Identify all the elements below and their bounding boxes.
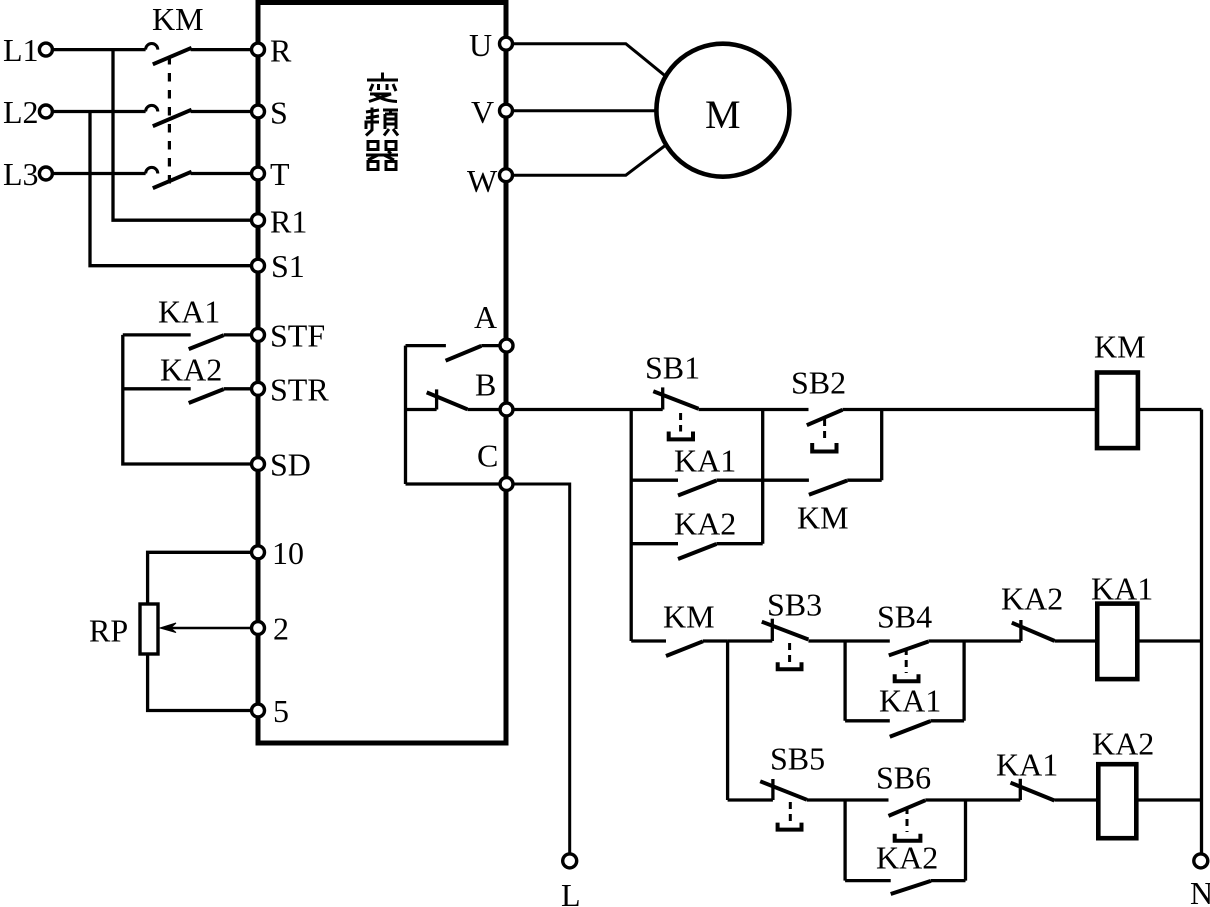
relay contact KA2 (row 3)	[631, 506, 763, 560]
svg-text:U: U	[469, 27, 492, 63]
pushbutton SB5 (NC)	[760, 741, 825, 830]
motor M	[656, 44, 789, 177]
relay contact KA2 (parallel with SB6)	[845, 840, 965, 895]
terminal L3	[39, 167, 52, 180]
terminal V	[500, 104, 513, 117]
svg-text:KM: KM	[797, 500, 849, 536]
svg-text:R1: R1	[270, 204, 307, 240]
wire KM contact to S	[191, 110, 250, 113]
svg-text:SB5: SB5	[770, 741, 825, 777]
svg-text:N: N	[1190, 875, 1210, 907]
svg-text:L: L	[561, 877, 581, 907]
right rail down to N	[1200, 410, 1203, 855]
wire W to motor	[513, 146, 665, 175]
svg-text:SB4: SB4	[877, 599, 932, 635]
svg-text:KA1: KA1	[674, 443, 736, 479]
wire KM contact to T	[191, 172, 250, 175]
wire V to motor	[513, 109, 658, 112]
svg-text:B: B	[475, 367, 496, 403]
branch verticals around KA1 parallel contact	[843, 641, 846, 721]
KM main contact pole 3	[146, 167, 192, 188]
relay contact KA1 (parallel with SB4)	[845, 683, 964, 737]
rung SB4 to KA2 contact	[928, 639, 1021, 642]
contactor contact KM (self-hold row)	[763, 480, 882, 535]
left rail from rung down	[630, 410, 633, 642]
svg-text:SB2: SB2	[791, 365, 846, 401]
terminal 5	[252, 704, 265, 717]
rung KA1 coil to right rail	[1137, 639, 1201, 642]
relay coil KA1	[1091, 571, 1153, 680]
pushbutton SB6 (NO)	[876, 760, 931, 841]
terminal B	[500, 403, 513, 416]
svg-text:SB1: SB1	[645, 350, 700, 386]
relay coil KA2	[1092, 726, 1154, 839]
pushbutton SB4 (NO)	[877, 599, 932, 682]
terminal L2	[39, 105, 52, 118]
svg-text:KM: KM	[1094, 329, 1146, 365]
KM linkage dashed line	[168, 56, 171, 187]
wire RP bottom to terminal 5	[148, 654, 252, 711]
svg-text:KA1: KA1	[996, 747, 1058, 783]
wire KM contact to R	[191, 48, 250, 51]
rung SB5 to SB6	[807, 798, 889, 801]
wire L3 to KM contact	[54, 172, 146, 175]
svg-text:KA2: KA2	[1001, 581, 1063, 617]
terminal STR	[252, 382, 265, 395]
svg-text:KA1: KA1	[1091, 571, 1153, 607]
rung SB6 to KA1 contact	[925, 798, 1020, 801]
contact on terminal A (NO)	[406, 346, 501, 361]
svg-text:STF: STF	[270, 318, 325, 354]
wire L1 to KM contact	[54, 48, 146, 51]
svg-text:W: W	[467, 163, 498, 199]
relay contact KA1 (NC interlock)	[996, 747, 1098, 801]
terminal STF	[252, 328, 265, 341]
svg-text:KA2: KA2	[876, 840, 938, 876]
svg-text:KA2: KA2	[674, 506, 736, 542]
terminal S1	[252, 259, 265, 272]
junction vertical after SB2	[880, 410, 883, 481]
contactor contact KM (KM row)	[631, 599, 727, 657]
main rung from B	[513, 408, 663, 411]
char 频	[366, 108, 398, 136]
wire to SB5	[728, 798, 773, 801]
inverter box outline	[258, 3, 506, 744]
rung SB1 to SB2	[699, 408, 809, 411]
pushbutton SB2 (NO)	[791, 365, 846, 452]
svg-text:L3: L3	[3, 156, 39, 192]
char 变	[367, 73, 398, 102]
contactor coil KM	[1094, 329, 1146, 449]
svg-text:A: A	[474, 299, 497, 335]
svg-text:KA2: KA2	[1092, 726, 1154, 762]
terminal S	[252, 105, 265, 118]
KM main contact pole 1	[146, 44, 192, 65]
wire L2 to KM contact	[54, 110, 146, 113]
svg-text:2: 2	[273, 611, 289, 647]
svg-text:KM: KM	[152, 1, 204, 37]
terminal SD	[252, 458, 265, 471]
terminal T	[252, 167, 265, 180]
pushbutton SB3 (NC)	[728, 587, 823, 670]
svg-text:L2: L2	[3, 94, 39, 130]
svg-text:M: M	[705, 92, 741, 137]
terminal C	[500, 478, 513, 491]
svg-text:T: T	[270, 156, 290, 192]
relay contact KA1 (self-hold row)	[631, 443, 763, 496]
terminal R1	[252, 214, 265, 227]
relay contact KA2 (to STR)	[123, 352, 252, 404]
char 器	[366, 142, 398, 170]
svg-text:V: V	[471, 94, 494, 130]
pushbutton SB1 (NC)	[645, 350, 700, 440]
terminal L1	[39, 43, 52, 56]
svg-text:SD: SD	[270, 447, 311, 483]
terminal A	[500, 339, 513, 352]
svg-text:KA1: KA1	[879, 683, 941, 719]
svg-text:KA2: KA2	[160, 352, 222, 388]
svg-text:SB6: SB6	[876, 760, 931, 796]
rung SB3 to SB4	[808, 639, 889, 642]
svg-text:5: 5	[273, 693, 289, 729]
svg-text:L1: L1	[3, 32, 39, 68]
relay contact KA1 (to STF)	[123, 294, 252, 350]
svg-text:C: C	[477, 438, 498, 474]
potentiometer RP body	[140, 604, 158, 654]
wire terminal 10 to RP top	[148, 552, 252, 604]
rung KM coil to right rail	[1138, 408, 1202, 411]
svg-text:STR: STR	[270, 372, 329, 408]
rung SB2 to KM coil	[843, 408, 1098, 411]
svg-text:10: 10	[272, 535, 304, 571]
svg-text:S1: S1	[271, 248, 305, 284]
relay contact KA2 (NC interlock)	[1001, 581, 1097, 642]
svg-text:SB3: SB3	[767, 587, 822, 623]
svg-text:RP: RP	[89, 613, 128, 649]
terminal L	[563, 854, 577, 868]
wire C to L terminal	[513, 484, 570, 854]
svg-text:R: R	[270, 33, 292, 69]
terminal 2	[252, 622, 265, 635]
wire branch L2 down to S1	[90, 112, 250, 266]
terminal W	[500, 169, 513, 182]
junction vertical from KM contact down to SB5 row	[726, 641, 729, 800]
wire C row inside contact block	[406, 482, 501, 485]
terminal R	[252, 43, 265, 56]
svg-text:S: S	[270, 95, 288, 131]
KM main contact pole 2	[146, 105, 192, 126]
contact on terminal B (NC)	[406, 389, 501, 409]
terminal N	[1194, 854, 1208, 868]
rung KA2 coil to right rail	[1136, 798, 1201, 801]
junction vertical after SB1	[761, 410, 764, 544]
alarm contact vertical link A-B-C	[404, 346, 407, 484]
wire common of KA1/KA2 down to SD	[123, 335, 252, 464]
wire branch L1 down to R1	[113, 50, 250, 221]
terminal U	[500, 37, 513, 50]
RP wiper arrow from terminal 2	[160, 623, 252, 633]
branch verticals around KA2 parallel contact	[843, 800, 846, 881]
label 变频器 (vertical, hand-drawn glyphs)	[366, 73, 398, 170]
svg-text:KM: KM	[663, 599, 715, 635]
wire U to motor	[513, 44, 665, 76]
terminal 10	[252, 546, 265, 559]
svg-text:KA1: KA1	[158, 294, 220, 330]
